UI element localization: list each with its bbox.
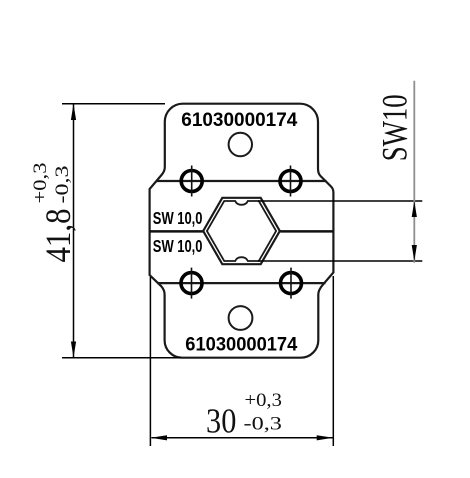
- svg-text:30: 30: [206, 402, 236, 441]
- centermark bottom-right: [290, 268, 292, 299]
- arrow SW10 bottom: [412, 245, 417, 261]
- part outline (crimp die plate): [150, 104, 334, 358]
- dimension text 41,8 rotated: [30, 163, 78, 263]
- bolt hole top-right: [280, 171, 301, 192]
- lower shoulder edge line: [158, 282, 326, 284]
- centermark bottom-left: [191, 268, 193, 299]
- dimension line 30: [152, 437, 333, 439]
- extension line hex bottom flat: [258, 260, 422, 262]
- svg-text:SW10: SW10: [375, 94, 415, 161]
- centermark top-left: [191, 166, 193, 197]
- extension line width right: [332, 276, 334, 446]
- svg-text:SW 10,0: SW 10,0: [153, 236, 203, 256]
- svg-text:+0,3: +0,3: [245, 390, 282, 411]
- pilot hole bottom: [229, 306, 253, 330]
- parting line right segment: [280, 230, 334, 233]
- arrow SW10 top: [412, 201, 417, 217]
- arrow 41,8 bottom: [71, 342, 76, 358]
- arrow 41,8 top: [71, 104, 76, 120]
- hex cavity inner contour SW10 with notches: [207, 201, 276, 261]
- bolt hole bottom-left: [181, 273, 202, 294]
- pilot hole top: [229, 133, 252, 156]
- upper shoulder edge line: [157, 180, 327, 182]
- extension line hex top flat: [258, 200, 422, 202]
- svg-text:+0,3: +0,3: [30, 163, 51, 204]
- extension line bottom-left: [62, 357, 181, 359]
- extension line top-left: [62, 103, 165, 105]
- centermark top-right: [290, 166, 292, 197]
- svg-text:61030000174: 61030000174: [185, 333, 297, 355]
- dimension line 41,8: [73, 105, 75, 358]
- bolt hole top-left: [181, 171, 202, 192]
- arrow 30 right: [317, 435, 333, 440]
- parting line left segment: [150, 230, 204, 233]
- svg-text:-0,3: -0,3: [244, 414, 282, 435]
- hex cavity outer contour: [203, 198, 280, 264]
- svg-text:61030000174: 61030000174: [181, 109, 297, 131]
- svg-text:41,8: 41,8: [38, 209, 78, 263]
- arrow 30 left: [151, 435, 167, 440]
- dimension text SW10 rotated: [375, 94, 415, 161]
- extension line width left: [149, 277, 151, 446]
- svg-text:SW 10,0: SW 10,0: [153, 208, 203, 228]
- bolt hole bottom-right: [281, 273, 302, 294]
- dimension line SW10: [413, 81, 415, 263]
- svg-text:-0,3: -0,3: [52, 166, 73, 204]
